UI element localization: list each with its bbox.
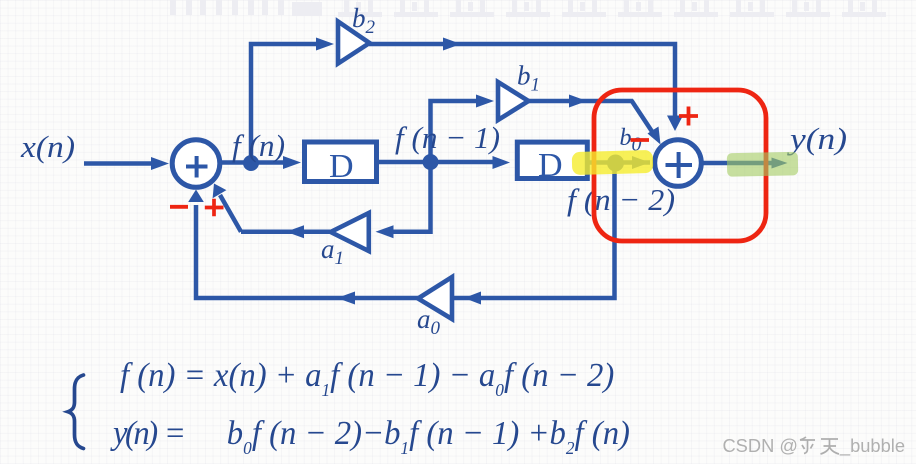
arrowhead a1 diagonal into summer U1 (213, 184, 227, 199)
arrowhead b1 diagonal into second summer (648, 127, 661, 145)
wire b1 output horizontal (529, 99, 634, 104)
svg-text:x(n): x(n) (20, 129, 75, 164)
wire delay D2 to second summer (590, 160, 651, 165)
wire b2 output to second summer (369, 44, 675, 117)
node f(n) junction dot (243, 155, 259, 171)
svg-text:f (n): f (n) (232, 128, 285, 163)
svg-text:b1: b1 (517, 61, 540, 96)
arrowhead on a0 wire left of gain (337, 292, 355, 305)
CSDN watermark (722, 435, 905, 457)
gain a0 triangle (418, 277, 452, 319)
summer U1 circle (172, 140, 220, 188)
arrowhead into summer U1 (151, 157, 169, 170)
wire delay D1 to node f(n-1) to delay D2 (378, 160, 500, 165)
equation line 1: f(n) = x(n) + a1 f(n-1) - a0 f(n-2) (120, 357, 614, 395)
red plus above second summer (679, 107, 698, 126)
wire b2 takeoff riser at node f(n) (251, 44, 322, 162)
wire input x(n) to summer U1 (84, 161, 154, 166)
arrowhead on b1 output wire (569, 95, 587, 108)
svg-text:f (n − 1): f (n − 1) (395, 120, 500, 155)
highlight green over y(n) wire (727, 152, 798, 177)
arrowhead on a1 wire right of gain (376, 225, 394, 238)
wire a1 takeoff down from node f(n-1) (392, 162, 431, 232)
gain b1 triangle (498, 82, 529, 120)
arrowhead on a0 wire right of gain (464, 292, 481, 305)
wire a1 output toward summer U1 (241, 229, 331, 234)
arrowhead into second summer from D2 (632, 156, 650, 169)
wire b1 takeoff riser at node f(n-1) (431, 101, 483, 162)
svg-text:y(n): y(n) (787, 121, 847, 156)
wire second summer to output y(n) (704, 161, 773, 166)
summer U2 circle (655, 140, 702, 187)
arrowhead on b2 output wire (443, 38, 461, 51)
delay block D2 (517, 142, 587, 178)
wire summer U1 to delay D1 (222, 160, 286, 165)
red minus strike at b0 (631, 138, 650, 142)
svg-text:b2: b2 (352, 3, 376, 38)
red plus below summer U1 (205, 199, 224, 216)
plus sign inside summer U1 (186, 156, 208, 178)
gain a1 triangle (331, 213, 369, 251)
wire f(n-2) takeoff down to a0 feedback (196, 163, 615, 298)
arrowhead into delay D1 (283, 156, 301, 169)
arrowhead on b2 wire before gain (316, 38, 334, 51)
equation brace (57, 366, 97, 456)
arrowhead on output y(n) wire (772, 158, 788, 169)
highlight yellow over D2 output wire (572, 150, 654, 175)
gain b2 triangle (338, 22, 370, 64)
wire b1 diagonal into second summer (632, 101, 654, 134)
svg-text:D: D (538, 147, 563, 184)
node f(n-2) junction dot (607, 155, 624, 172)
delay block D1 (305, 142, 377, 182)
arrowhead on b1 wire before gain (476, 95, 494, 108)
arrowhead on a1 wire left of gain (286, 225, 304, 238)
arrowhead into delay D2 (493, 156, 511, 169)
arrowhead into second summer from top (667, 116, 683, 132)
wire a1 diagonal into summer U1 (220, 195, 241, 232)
faint top watermark (cut-off bilibili@... text) (0, 0, 916, 30)
arrowhead into summer U1 from below (188, 190, 204, 203)
red annotation rounded box around second summer (594, 90, 766, 241)
red minus below summer U1 (170, 205, 188, 209)
plus sign inside summer U2 (666, 152, 693, 178)
equation line 2: y(n) = b0 f(n-2) - b1 f(n-1) + b2 f(n) (113, 415, 630, 453)
svg-text:D: D (329, 148, 354, 185)
node f(n-1) junction dot (423, 154, 439, 170)
svg-text:f (n − 2): f (n − 2) (567, 182, 675, 217)
